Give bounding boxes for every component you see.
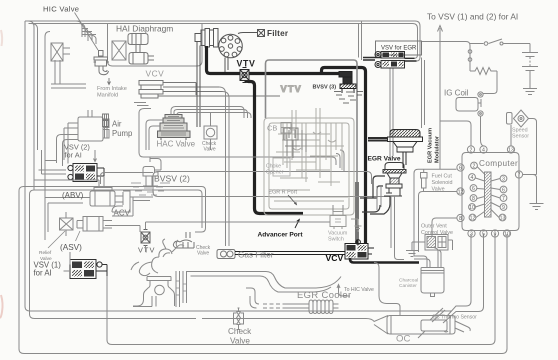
wire ACV-ASV links [105, 197, 153, 232]
wire distributor down legs [197, 42, 228, 128]
dark hose distributor to VTV to BVSV3 [207, 46, 340, 74]
VSV1 component [70, 260, 107, 279]
wire VSV2 to left rails [39, 150, 69, 174]
svg-text:7: 7 [502, 196, 505, 202]
wire ASV pointer [76, 231, 81, 241]
svg-text:6: 6 [472, 186, 475, 192]
HIC valve body [94, 57, 110, 66]
VTV bottom component [141, 230, 150, 246]
wire VSV1 left links [64, 252, 71, 271]
resistor [470, 68, 497, 75]
fuel cut solenoid component [421, 169, 428, 191]
svg-text:EGR R Port: EGR R Port [269, 190, 298, 196]
filter box [258, 30, 265, 37]
BVSV2 component [143, 167, 158, 187]
svg-text:OC: OC [396, 334, 410, 345]
air horn [131, 262, 152, 276]
carburetor outer box [264, 118, 354, 215]
wire pin4 riser [481, 117, 484, 147]
svg-text:Valve: Valve [204, 147, 216, 153]
svg-text:VSV for EGR: VSV for EGR [381, 46, 417, 52]
wire resistor to IG coil [483, 71, 497, 94]
svg-text:VTV: VTV [237, 59, 256, 69]
svg-text:CB: CB [267, 124, 277, 133]
svg-text:OC Thermo Sensor: OC Thermo Sensor [432, 315, 477, 321]
wire speed sensor to right rail [529, 119, 537, 175]
svg-text:2: 2 [473, 164, 476, 170]
computer pin circles top [467, 146, 514, 153]
svg-text:7: 7 [518, 173, 521, 179]
HIC valve spout [99, 66, 109, 75]
wire mid horizontals right corners [332, 150, 344, 172]
wire VSV EGR down hose [390, 68, 393, 160]
wire ABV up [34, 176, 104, 188]
svg-text:BVSV (2): BVSV (2) [154, 174, 190, 184]
wire pin3 to OC sensor [447, 234, 471, 316]
wire left verticals to VSV2 area [28, 21, 50, 240]
svg-text:EGR Vacuum: EGR Vacuum [428, 128, 434, 163]
ABV component [34, 176, 153, 248]
svg-text:10: 10 [469, 205, 475, 211]
vacuum switch ground [351, 219, 362, 231]
battery ground [523, 89, 537, 95]
svg-text:Valve: Valve [230, 337, 250, 346]
svg-text:Sensor: Sensor [512, 134, 529, 140]
svg-text:Switch: Switch [328, 237, 344, 243]
svg-text:HAC Valve: HAC Valve [157, 140, 196, 149]
computer inner circles right [499, 175, 507, 221]
wire pin7 to ground [523, 175, 537, 204]
IG coil box [456, 98, 478, 112]
svg-text:3: 3 [470, 232, 473, 238]
svg-text:Valve: Valve [432, 187, 445, 193]
computer pin links left [476, 167, 485, 218]
wire carb-left riser to x357 drop [266, 60, 358, 240]
scan artifact left edge [1, 30, 2, 46]
wire hoses left of HIC [76, 21, 85, 37]
vacuum switch component [330, 212, 362, 232]
OC tail [455, 321, 470, 332]
svg-text:for AI: for AI [34, 269, 52, 278]
VSV for EGR label box [376, 41, 422, 55]
svg-text:Gas Filter: Gas Filter [238, 251, 274, 260]
HIC valve pointer line [75, 13, 99, 51]
svg-text:To VSV (1) and (2) for AI: To VSV (1) and (2) for AI [427, 12, 518, 22]
carburetor inner box [269, 123, 349, 209]
scan artifact pink smudge [0, 295, 3, 318]
charcoal canister body [421, 268, 444, 294]
svg-text:EGR Valve: EGR Valve [368, 156, 401, 163]
hose down to EGR cooler (dashed) [263, 304, 284, 308]
svg-text:Control Valve: Control Valve [421, 230, 453, 236]
air cleaner crosshatch box left [51, 43, 63, 61]
svg-text:Advancer Port: Advancer Port [258, 232, 304, 239]
arrow to intake manifold [108, 78, 111, 85]
svg-text:Air: Air [112, 120, 122, 129]
svg-text:10: 10 [504, 232, 510, 238]
label IM [103, 114, 109, 127]
svg-text:ACV: ACV [114, 209, 131, 218]
svg-text:VCV: VCV [146, 69, 165, 79]
wire pin2 riser [440, 121, 471, 146]
gas filter component [217, 250, 235, 259]
dark hose VTV down branch to advancer port [245, 78, 303, 214]
svg-text:IG Coil: IG Coil [444, 89, 469, 98]
computer pin circle right [515, 171, 522, 178]
VCVB component [345, 244, 368, 260]
svg-text:Canister: Canister [399, 283, 417, 289]
OC body [387, 316, 455, 335]
svg-text:HIC Valve: HIC Valve [43, 5, 79, 14]
wire VTV bottom connections [146, 205, 344, 252]
svg-text:13: 13 [500, 216, 506, 222]
wire pin12 to OVCV [419, 192, 458, 253]
svg-text:4: 4 [471, 175, 474, 181]
big hose upper [187, 272, 341, 289]
wire modulator feed [422, 58, 425, 129]
OC inlet cone [374, 316, 388, 335]
battery [522, 44, 538, 89]
riser pair 2 [183, 271, 187, 303]
wire gas filter risers [219, 87, 229, 246]
svg-text:Relief: Relief [39, 250, 52, 256]
wire EGR pipes down to canister [377, 186, 404, 260]
distributor vacuum advance unit [195, 34, 201, 42]
intake manifold verticals below left box [51, 60, 86, 88]
svg-text:BVSV (3): BVSV (3) [313, 85, 337, 91]
outer vent control valve [425, 235, 448, 251]
wire left long hose x25 to bottom [25, 21, 452, 311]
svg-text:3: 3 [502, 177, 505, 183]
wire to HIC valve arrow [337, 285, 350, 297]
VSV2 component [68, 164, 104, 182]
carb bottom internals [270, 190, 348, 201]
EGR R port arrow [288, 195, 297, 205]
svg-text:Solenoid: Solenoid [432, 180, 453, 186]
svg-text:VCV: VCV [326, 253, 344, 263]
wire VSV2 hose corners [57, 135, 79, 167]
engine piston [155, 285, 165, 295]
wire HAC left links [146, 120, 163, 150]
wire outer frame left-bottom [19, 187, 507, 354]
EGR vacuum modulator [390, 130, 420, 138]
svg-text:Opener: Opener [266, 170, 284, 176]
computer pin circles bottom [468, 230, 511, 237]
wire to fuel cut region [439, 121, 441, 169]
ignition switch contacts [470, 39, 530, 44]
wire top hose pair to VSV for EGR [25, 21, 420, 61]
carburetor curves [152, 239, 184, 273]
carb darker internals [284, 128, 306, 158]
VSV for EGR component [381, 52, 405, 59]
arrow into VSV2 [94, 150, 97, 162]
wire HAC bundle to right [171, 107, 247, 115]
svg-text:To HIC Valve: To HIC Valve [344, 287, 374, 293]
svg-text:9: 9 [494, 232, 497, 238]
wire pin8 to OVCV [432, 218, 457, 236]
EGR valve [385, 163, 404, 170]
wire air pump top pipe [88, 110, 92, 117]
computer connector strip [485, 172, 492, 217]
wire VCVB output continuation [374, 263, 400, 316]
wire left short bundle [45, 157, 150, 162]
BVSV3 coolant waves [334, 92, 363, 104]
computer inner circles left [469, 162, 478, 221]
check valve bottom symbol [234, 308, 244, 330]
wire ASV region horizontals [45, 198, 90, 233]
wire VSV1 pointer [48, 231, 65, 248]
wire modulator down to EGR valve [403, 152, 406, 168]
ACV body [112, 191, 130, 212]
svg-text:Computer: Computer [479, 159, 518, 168]
svg-text:From Intake: From Intake [97, 86, 127, 92]
riser clamp ticks [176, 281, 187, 295]
svg-text:5: 5 [482, 232, 485, 238]
HAI diaphragm stem [136, 45, 140, 53]
engine head bars [147, 277, 171, 282]
svg-text:13: 13 [508, 148, 514, 154]
wire long pair to VTV riser [24, 187, 206, 319]
wire pin6 to left riser [414, 169, 457, 256]
wire between crosshatch boxes [63, 48, 70, 54]
svg-text:for AI: for AI [65, 151, 82, 160]
relief valve box [60, 212, 74, 236]
wire nested corners into HIC area [82, 29, 96, 45]
air cleaner crosshatch box right [112, 41, 126, 60]
svg-text:Fuel Cut: Fuel Cut [432, 174, 453, 180]
EGR cooler bellows [284, 300, 339, 314]
HAC valve body [165, 115, 182, 119]
svg-text:4: 4 [482, 148, 485, 154]
VTV component (top) [240, 68, 249, 83]
wire BVSV2 hose loop [153, 172, 390, 197]
svg-text:12: 12 [458, 190, 464, 196]
wire ignition switch rail [421, 42, 470, 69]
choke opener small box [273, 158, 290, 176]
CB choke breaker component [281, 123, 291, 140]
VCV output lines [158, 83, 280, 97]
OC thermo sensor body [421, 320, 448, 332]
svg-text:VTV: VTV [138, 246, 155, 255]
wire pin13 riser [510, 125, 512, 146]
svg-text:Check: Check [228, 327, 252, 336]
HAI diaphragm lower cylinder [129, 52, 154, 65]
EGR valve left pipes [360, 176, 385, 198]
svg-text:8: 8 [459, 216, 462, 222]
svg-text:2: 2 [470, 148, 473, 154]
computer pin links right [491, 179, 500, 218]
svg-text:Valve: Valve [197, 251, 209, 257]
check valve (mid) [204, 126, 217, 139]
air pump pulley [103, 119, 109, 138]
engine block [133, 281, 175, 307]
wire pin7 link [525, 174, 537, 176]
dark hose branch to BVSV3 upper port [322, 68, 366, 244]
svg-text:HAI Diaphragm: HAI Diaphragm [116, 24, 173, 34]
computer pin circles left [457, 164, 464, 222]
riser pair 1 [176, 271, 180, 307]
OC thermo sensor probe [418, 308, 445, 338]
speed sensor [507, 113, 513, 125]
svg-text:(ABV): (ABV) [62, 191, 84, 200]
air pump box [78, 117, 103, 141]
svg-text:Pump: Pump [112, 129, 133, 138]
svg-text:Filter: Filter [267, 29, 289, 38]
HAI diaphragm upper cylinder [128, 33, 148, 45]
svg-text:12: 12 [470, 216, 476, 222]
wire distributor to filter [238, 33, 257, 34]
VCV valve layered body [139, 81, 163, 99]
HIC valve cap [99, 51, 104, 57]
HAI box [108, 23, 203, 66]
advancer port arrow [295, 219, 299, 228]
computer right ground [530, 204, 544, 210]
computer box [462, 153, 519, 231]
wire left long hose x28 to check valve line [35, 319, 375, 322]
canister top hoses [414, 248, 438, 268]
BVSV2 coolant waves [131, 183, 170, 195]
svg-text:6: 6 [459, 166, 462, 172]
wire bundle corners down at right [240, 107, 251, 119]
svg-text:6: 6 [502, 188, 505, 194]
OVCV ground [406, 242, 425, 257]
wire second vertical pair from top hose [359, 21, 362, 60]
check valve (engine) component [173, 232, 194, 248]
ASV component [77, 217, 112, 232]
wire corner down to ABV [101, 173, 154, 185]
svg-text:Charcoal: Charcoal [399, 278, 418, 284]
svg-text:(ASV): (ASV) [60, 243, 82, 252]
svg-text:Outer Vent: Outer Vent [421, 224, 447, 230]
wire modulator left ports [368, 138, 388, 141]
svg-text:9: 9 [502, 205, 505, 211]
wire to VSV vertical with arrow [438, 26, 443, 122]
svg-text:Modulator: Modulator [435, 135, 441, 163]
wire pin5 to OC sensor [443, 234, 484, 323]
distributor cap circle [219, 34, 243, 58]
svg-text:VTV: VTV [281, 84, 302, 94]
carb internal linkage [283, 108, 342, 186]
svg-text:8: 8 [472, 196, 475, 202]
wire air pump left pipes [64, 123, 78, 160]
wire VCV link stubs and third bundle line [134, 103, 332, 158]
svg-text:Manifold: Manifold [97, 93, 118, 99]
dark hose VCVB output right [350, 258, 419, 263]
wire VSV1 to computer pin10 run [107, 234, 495, 345]
